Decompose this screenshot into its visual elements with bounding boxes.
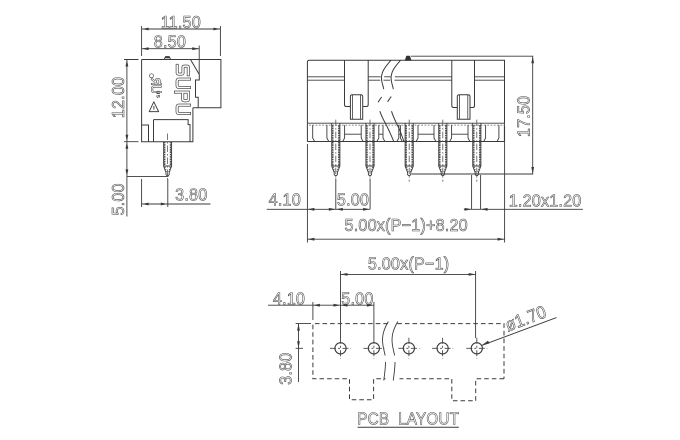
SUPU logo — [176, 65, 190, 113]
front top bump — [405, 56, 411, 60]
side view left ledge — [142, 125, 149, 142]
latch tower 2 — [452, 60, 475, 107]
recycling triangle — [149, 102, 158, 112]
leader dia 1.70 — [481, 318, 556, 346]
svg-text:5.00: 5.00 — [337, 190, 369, 210]
dimension 3.80 pcb — [296, 324, 311, 382]
svg-text:4.10: 4.10 — [269, 190, 301, 210]
bottom strip details — [313, 125, 499, 141]
svg-text:17.50: 17.50 — [514, 96, 534, 137]
svg-text:3.80: 3.80 — [276, 353, 296, 385]
svg-text:12.00: 12.00 — [108, 77, 128, 118]
side view pin — [164, 134, 172, 182]
pins front view — [332, 120, 340, 182]
dimension 8.50 — [142, 46, 200, 75]
bottom strip — [307, 123, 504, 141]
svg-text:5.00x(P−1): 5.00x(P−1) — [368, 254, 449, 274]
PCB LAYOUT title — [357, 408, 459, 428]
front body horizontal lines — [307, 77, 504, 80]
pcb break curves — [383, 322, 398, 381]
svg-text:us: us — [155, 91, 162, 99]
svg-text:ø1.70: ø1.70 — [502, 302, 549, 336]
side view bottom recess — [154, 120, 191, 142]
side view top bump — [164, 57, 171, 60]
svg-text:PCB LAYOUT: PCB LAYOUT — [357, 408, 459, 428]
svg-text:3.80: 3.80 — [175, 185, 207, 205]
svg-text:5.00: 5.00 — [108, 183, 128, 215]
pcb holes — [330, 338, 351, 359]
dimension 11.50 — [142, 26, 221, 56]
svg-text:11.50: 11.50 — [161, 12, 201, 32]
dimension 12.00 — [124, 60, 139, 142]
dimension 1.20x1.20 — [464, 175, 583, 211]
front view body outline — [307, 60, 504, 123]
side view body outline — [142, 60, 221, 142]
dimension 4.10/5.00 pcb — [268, 302, 374, 338]
clamp 2 — [457, 95, 470, 120]
dimension 5.00x(P-1) pcb — [341, 271, 476, 338]
pcb dashed outline — [313, 324, 504, 401]
svg-text:8.50: 8.50 — [154, 32, 186, 52]
dimension 3.80 — [142, 179, 211, 207]
svg-text:5.00x(P−1)+8.20: 5.00x(P−1)+8.20 — [345, 215, 468, 235]
latch tower 1 — [345, 60, 369, 106]
dimension 5.00x(P-1)+8.20 — [307, 126, 504, 243]
clamp 1 — [350, 95, 362, 120]
dimension 4.10 front — [267, 179, 370, 211]
break lines front view — [378, 60, 404, 141]
dimension 17.50 — [411, 56, 534, 174]
svg-text:1.20x1.20: 1.20x1.20 — [509, 191, 582, 211]
dimension 5.00 side — [124, 142, 168, 217]
svg-text:4.10: 4.10 — [273, 289, 305, 309]
svg-text:5.00: 5.00 — [341, 289, 373, 309]
UL recognized mark — [150, 74, 162, 99]
